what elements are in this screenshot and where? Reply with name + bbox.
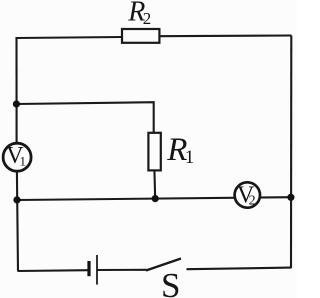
battery negative plate (short) — [87, 261, 90, 276]
wire bottom (right of switch) — [187, 268, 292, 270]
voltmeter V2 — [235, 182, 260, 208]
wire upper-middle horizontal to R1 — [16, 102, 153, 133]
label R1 — [166, 132, 194, 168]
wire middle horizontal (node row through V2) — [17, 197, 291, 200]
node C (below R1) — [152, 195, 159, 202]
wire bottom (left of battery) — [18, 269, 89, 272]
svg-text:2: 2 — [143, 9, 152, 28]
wire R1 bottom to node — [153, 170, 156, 199]
wire left (below V1) — [17, 171, 18, 272]
wire top (left of R2) — [17, 37, 123, 38]
resistor R1 — [148, 133, 160, 171]
node B (left middle junction) — [13, 196, 20, 203]
switch S blade — [146, 259, 181, 271]
wire top (right of R2) — [158, 34, 292, 37]
svg-text:S: S — [161, 266, 180, 298]
svg-text:1: 1 — [185, 147, 195, 168]
node D (right middle junction) — [287, 194, 294, 201]
wire right vertical — [290, 36, 292, 269]
wire left (top-left vertical) — [15, 37, 17, 143]
node A (left upper junction) — [13, 100, 20, 107]
wire bottom (battery to switch hinge) — [97, 269, 147, 271]
voltmeter V1 — [3, 143, 31, 171]
battery positive plate (long) — [96, 255, 98, 285]
label R2 — [127, 0, 151, 28]
resistor R2 — [122, 29, 159, 43]
svg-text:2: 2 — [249, 193, 256, 208]
svg-text:1: 1 — [20, 154, 27, 169]
